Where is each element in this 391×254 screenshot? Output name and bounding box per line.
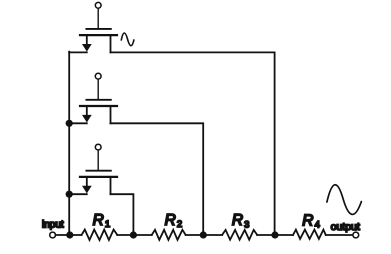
svg-text:2: 2: [177, 219, 182, 230]
svg-text:input: input: [42, 220, 64, 231]
wire M3 source to rail: [69, 193, 87, 195]
wire R2 to R3: [186, 234, 223, 236]
wire input to R1: [56, 234, 82, 236]
wire M1 source to left rail: [69, 51, 87, 53]
resistor R2: [152, 230, 186, 240]
junction dot node D: [271, 231, 278, 238]
input terminal: [50, 232, 56, 238]
transistor M3: [80, 144, 117, 194]
wire R1 to R2: [117, 234, 152, 236]
transistor M2: [80, 73, 117, 123]
resistor R3: [222, 230, 257, 240]
resistor R1: [82, 230, 118, 240]
wire M3 drain to node between R1 and R2: [111, 194, 134, 235]
large sine symbol: [327, 185, 362, 215]
small sine symbol: [121, 33, 134, 46]
output terminal: [353, 232, 359, 238]
resistor R4: [293, 230, 326, 239]
junction dot M2 source: [66, 120, 73, 127]
wire R3 to R4: [257, 234, 293, 236]
svg-text:R: R: [165, 212, 176, 229]
junction dot node C: [200, 231, 207, 238]
svg-text:R: R: [93, 212, 104, 229]
svg-text:1: 1: [105, 219, 110, 230]
junction dot input node: [66, 231, 73, 238]
wire left rail: [68, 52, 70, 235]
svg-text:R: R: [302, 213, 313, 230]
wire M1 drain to right column: [111, 52, 275, 235]
wire M2 drain to middle column: [111, 123, 204, 235]
svg-text:3: 3: [244, 220, 249, 231]
wire R4 to output: [326, 234, 353, 236]
svg-text:R: R: [232, 212, 243, 229]
wire M2 source to rail: [69, 122, 87, 124]
junction dot M3 source: [66, 191, 73, 198]
svg-text:4: 4: [315, 220, 320, 231]
junction dot node B: [130, 231, 137, 238]
svg-text:output: output: [331, 221, 360, 233]
transistor M1: [80, 2, 117, 52]
